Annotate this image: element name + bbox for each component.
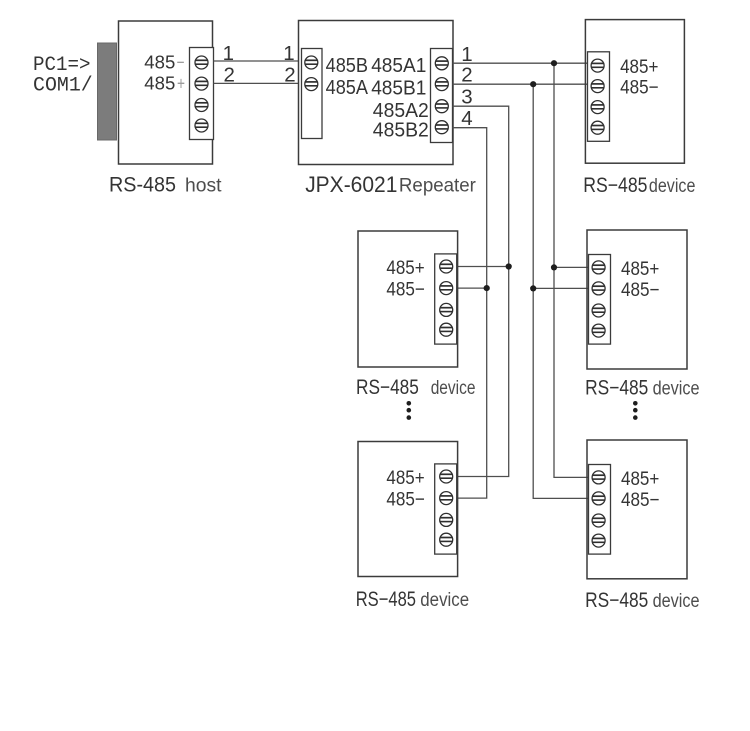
repeater output screw 3 bbox=[435, 100, 448, 113]
svg-text:485: 485 bbox=[144, 73, 175, 94]
host terminal block bbox=[190, 48, 214, 140]
svg-text:2: 2 bbox=[284, 64, 295, 87]
device middle-left screw 1 bbox=[440, 260, 453, 273]
device bottom-left screw 1 bbox=[440, 470, 453, 483]
device bottom-right screw 4 bbox=[592, 534, 605, 547]
svg-text:RS−485: RS−485 bbox=[585, 589, 648, 612]
svg-text:485−: 485− bbox=[620, 77, 659, 99]
svg-text:485B: 485B bbox=[326, 54, 368, 77]
repeater input screw 2 bbox=[305, 78, 318, 91]
device bottom-left screw 4 bbox=[440, 533, 453, 546]
device middle-right screw 2 bbox=[592, 282, 605, 295]
host DB9 connector gray block bbox=[98, 43, 117, 140]
junction dot middle-left 485- bbox=[484, 285, 490, 291]
svg-text:485B1: 485B1 bbox=[371, 76, 426, 99]
device bottom-left box bbox=[358, 442, 458, 577]
svg-text:device: device bbox=[431, 378, 476, 399]
repeater output screw 1 bbox=[435, 57, 448, 70]
device bottom-right screw 3 bbox=[592, 514, 605, 527]
svg-text:+: + bbox=[177, 73, 185, 94]
host screw 3 bbox=[195, 99, 208, 112]
svg-text:RS−485: RS−485 bbox=[356, 376, 419, 399]
device middle-right box bbox=[587, 230, 687, 369]
device middle-right screw 4 bbox=[592, 324, 605, 337]
device middle-left screw 3 bbox=[440, 303, 453, 316]
junction dot wire1 bus A bbox=[551, 60, 557, 66]
device top-right box bbox=[585, 20, 684, 164]
device middle-right screw 3 bbox=[592, 304, 605, 317]
svg-text:485−: 485− bbox=[621, 279, 660, 301]
device bottom-left screw 2 bbox=[440, 492, 453, 505]
device bottom-left terminal block bbox=[435, 464, 457, 554]
host screw 2 bbox=[195, 77, 208, 90]
svg-text:4: 4 bbox=[461, 107, 472, 130]
svg-text:JPX-6021: JPX-6021 bbox=[305, 172, 397, 197]
svg-text:−: − bbox=[177, 51, 185, 72]
svg-text:1: 1 bbox=[223, 42, 234, 65]
bus A vertical from pin1 bbox=[554, 63, 589, 477]
svg-text:3: 3 bbox=[461, 85, 472, 108]
junction dot middle-left 485+ bbox=[506, 263, 512, 269]
device bottom-right terminal block bbox=[589, 465, 611, 555]
svg-text:485: 485 bbox=[144, 51, 175, 72]
device middle-left box bbox=[358, 231, 458, 367]
svg-text:485+: 485+ bbox=[620, 56, 658, 78]
svg-text:device: device bbox=[420, 590, 469, 611]
stub middle-right 485- bbox=[533, 287, 588, 289]
svg-text:RS−485: RS−485 bbox=[583, 174, 647, 197]
wire repeater pin3 horizontal bbox=[453, 106, 509, 476]
svg-text:2: 2 bbox=[461, 64, 472, 87]
device top-right screw 3 bbox=[591, 101, 604, 114]
wire host 485+ to repeater pin 2 bbox=[214, 82, 299, 84]
svg-text:PC1=>: PC1=> bbox=[33, 54, 91, 77]
wire repeater pin1 to device1 485+ bbox=[453, 62, 588, 64]
ellipsis middle-right bbox=[633, 401, 638, 420]
svg-text:485+: 485+ bbox=[386, 467, 424, 489]
device top-right screw 1 bbox=[591, 59, 604, 72]
stub middle-left 485+ bbox=[457, 266, 509, 268]
svg-text:RS-485: RS-485 bbox=[109, 173, 176, 196]
device middle-right terminal block bbox=[589, 255, 611, 345]
device bottom-left screw 3 bbox=[440, 513, 453, 526]
wire host 485- to repeater pin 1 bbox=[214, 60, 299, 62]
device bottom-right screw 1 bbox=[592, 471, 605, 484]
device middle-left screw 2 bbox=[440, 282, 453, 295]
wire repeater pin4 horizontal bbox=[453, 128, 487, 498]
device top-right terminal block bbox=[588, 52, 610, 142]
device middle-left terminal block bbox=[435, 254, 457, 344]
repeater input terminal block bbox=[302, 49, 323, 139]
svg-text:485+: 485+ bbox=[621, 468, 659, 490]
svg-text:RS−485: RS−485 bbox=[356, 588, 416, 611]
RS-485 host box bbox=[119, 21, 213, 164]
junction dot middle-right 485- bbox=[530, 285, 536, 291]
svg-text:host: host bbox=[185, 175, 222, 196]
host screw 1 bbox=[195, 56, 208, 69]
repeater input screw 1 bbox=[305, 56, 318, 69]
ellipsis middle-left bbox=[407, 401, 412, 420]
junction dot wire2 bus B bbox=[530, 81, 536, 87]
host screw 4 bbox=[195, 119, 208, 132]
svg-text:device: device bbox=[649, 176, 696, 197]
junction dot middle-right 485+ bbox=[551, 264, 557, 270]
svg-text:RS−485: RS−485 bbox=[585, 377, 648, 400]
svg-text:485A1: 485A1 bbox=[371, 54, 426, 77]
device middle-left screw 4 bbox=[440, 323, 453, 336]
svg-text:485+: 485+ bbox=[386, 257, 424, 279]
svg-text:485+: 485+ bbox=[621, 258, 659, 280]
bus B vertical from pin2 bbox=[533, 84, 588, 498]
device top-right screw 4 bbox=[591, 121, 604, 134]
svg-text:485B2: 485B2 bbox=[373, 118, 429, 141]
svg-text:485−: 485− bbox=[621, 489, 660, 511]
svg-text:COM1/: COM1/ bbox=[33, 75, 93, 98]
device bottom-right box bbox=[587, 440, 687, 579]
svg-text:device: device bbox=[653, 379, 700, 400]
svg-text:1: 1 bbox=[283, 42, 294, 65]
device top-right screw 2 bbox=[591, 80, 604, 93]
svg-text:485−: 485− bbox=[386, 489, 425, 511]
stub middle-right 485+ bbox=[554, 266, 589, 268]
svg-text:2: 2 bbox=[223, 64, 234, 87]
repeater output screw 2 bbox=[435, 78, 448, 91]
wire repeater pin2 to device1 485- bbox=[453, 83, 588, 85]
svg-text:485A: 485A bbox=[326, 76, 369, 99]
JPX-6021 repeater box bbox=[299, 21, 454, 165]
svg-text:Repeater: Repeater bbox=[399, 174, 476, 196]
svg-text:device: device bbox=[653, 591, 700, 612]
repeater output terminal block bbox=[431, 49, 453, 143]
stub middle-left 485- bbox=[457, 287, 487, 289]
svg-text:485−: 485− bbox=[386, 279, 425, 301]
repeater output screw 4 bbox=[435, 121, 448, 134]
device middle-right screw 1 bbox=[592, 261, 605, 274]
device bottom-right screw 2 bbox=[592, 492, 605, 505]
